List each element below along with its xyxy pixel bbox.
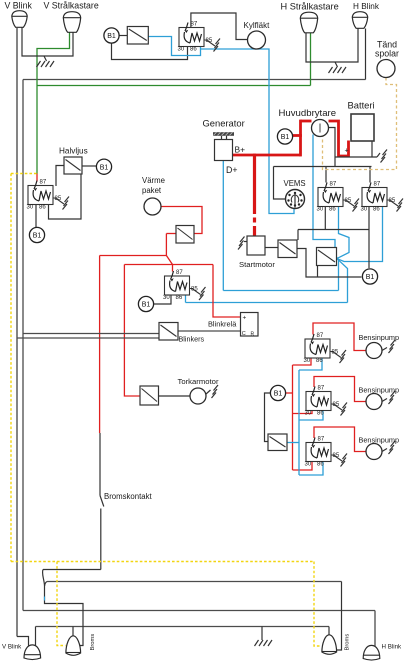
- svg-text:Bensinpump: Bensinpump: [359, 333, 400, 342]
- svg-text:Halvljus: Halvljus: [59, 147, 88, 156]
- svg-text:Bensinpump: Bensinpump: [359, 386, 400, 395]
- svg-text:C: C: [242, 331, 246, 337]
- svg-text:Bensinpump: Bensinpump: [359, 436, 400, 445]
- svg-text:Batteri: Batteri: [348, 100, 375, 111]
- svg-text:V Blink: V Blink: [2, 644, 22, 651]
- svg-text:H Strålkastare: H Strålkastare: [281, 2, 339, 12]
- svg-text:Blinkrelä: Blinkrelä: [208, 320, 237, 329]
- svg-text:spolar: spolar: [375, 49, 399, 59]
- svg-text:Blinkers: Blinkers: [179, 335, 205, 344]
- svg-text:Huvudbrytare: Huvudbrytare: [279, 108, 337, 119]
- svg-text:+: +: [243, 315, 247, 322]
- svg-text:V Strålkastare: V Strålkastare: [44, 1, 99, 11]
- svg-text:Broms: Broms: [345, 634, 351, 651]
- svg-text:VEMS: VEMS: [284, 179, 306, 188]
- svg-text:D+: D+: [226, 165, 238, 175]
- svg-text:Startmotor: Startmotor: [239, 260, 275, 269]
- svg-text:R: R: [251, 332, 255, 338]
- svg-text:Värme: Värme: [142, 176, 165, 185]
- svg-text:B+: B+: [235, 145, 246, 155]
- svg-text:V Blink: V Blink: [5, 1, 33, 11]
- svg-text:+: +: [345, 148, 349, 155]
- svg-text:Generator: Generator: [203, 118, 245, 129]
- svg-text:paket: paket: [142, 186, 162, 195]
- svg-text:H Blink: H Blink: [382, 644, 403, 651]
- svg-text:Kylfläkt: Kylfläkt: [244, 21, 271, 30]
- svg-text:Torkarmotor: Torkarmotor: [178, 377, 219, 386]
- svg-text:Broms: Broms: [90, 634, 96, 651]
- svg-text:H Blink: H Blink: [353, 2, 380, 11]
- svg-text:Bromskontakt: Bromskontakt: [104, 492, 152, 501]
